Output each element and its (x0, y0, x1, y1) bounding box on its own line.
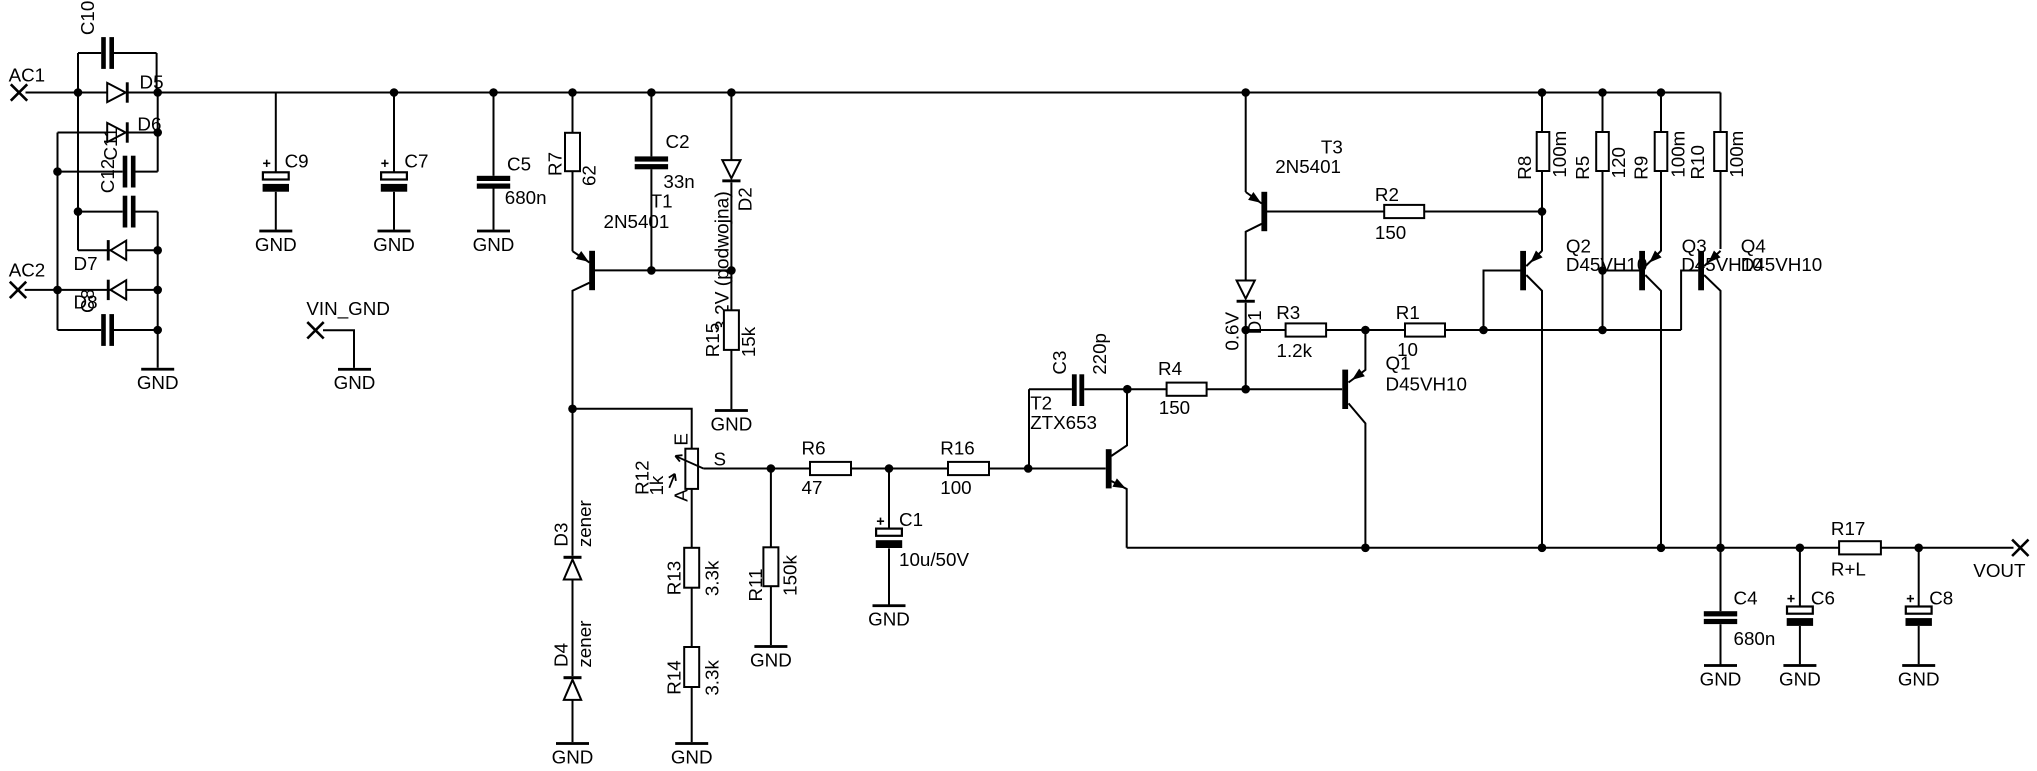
svg-text:AC2: AC2 (9, 260, 46, 281)
resistor R10 (1687, 131, 1747, 180)
ground C1 (868, 604, 910, 629)
resistor R14 (663, 647, 722, 696)
svg-text:C3: C3 (1049, 351, 1070, 375)
wire Q2 collector drop (1526, 275, 1542, 548)
svg-text:100: 100 (940, 477, 971, 498)
svg-text:T2: T2 (1030, 393, 1052, 414)
svg-text:GND: GND (750, 649, 792, 670)
resistor R1 (1396, 302, 1445, 360)
wire zener D3-D4 link (572, 579, 574, 676)
svg-text:100m: 100m (1726, 131, 1747, 178)
wire C8 bottom lead (1918, 626, 1920, 664)
port AC1 (9, 64, 46, 100)
svg-text:zener: zener (574, 621, 595, 668)
svg-text:120: 120 (1608, 147, 1629, 178)
capacitor C7 (381, 150, 429, 191)
svg-text:GND: GND (868, 609, 910, 630)
capacitor C4 (1704, 587, 1775, 649)
svg-text:C10: C10 (77, 1, 98, 35)
ground C8 output (1898, 664, 1940, 689)
svg-text:R6: R6 (802, 438, 826, 459)
svg-text:100m: 100m (1549, 131, 1570, 178)
port AC2 (9, 260, 46, 299)
diode D3 zener (550, 500, 595, 579)
svg-text:62: 62 (579, 165, 600, 186)
svg-text:C5: C5 (507, 154, 531, 175)
svg-text:GND: GND (671, 746, 713, 767)
ground doubler (137, 368, 179, 393)
svg-text:T3: T3 (1321, 136, 1343, 157)
svg-text:680n: 680n (505, 187, 547, 208)
resistor R16 (940, 438, 989, 499)
svg-text:D7: D7 (74, 253, 98, 274)
wire C5 bottom lead (493, 188, 495, 229)
svg-text:S: S (714, 449, 727, 470)
svg-text:R14: R14 (663, 660, 684, 694)
capacitor C9 (263, 151, 309, 192)
svg-text:R5: R5 (1572, 156, 1593, 180)
svg-text:C8: C8 (77, 289, 98, 313)
wire C12 right lead (136, 211, 158, 213)
svg-text:GND: GND (137, 372, 179, 393)
svg-text:GND: GND (373, 234, 415, 255)
svg-text:R2: R2 (1375, 184, 1399, 205)
ground C5 (473, 230, 515, 255)
svg-text:VIN_GND: VIN_GND (306, 298, 390, 320)
wire Q3 emitter diagonal (1645, 251, 1661, 266)
wire C1 bottom lead (888, 548, 890, 605)
diode D6 (107, 114, 161, 143)
transistor Q3 (1639, 235, 1762, 290)
wire pot chain down (R12-R13-R14-GND) (691, 489, 693, 742)
capacitor C8 doubler (77, 289, 114, 346)
resistor R9 (1631, 131, 1689, 180)
capacitor C6 (1787, 587, 1835, 626)
svg-text:100m: 100m (1667, 131, 1688, 178)
wire T1 collector diagonal (573, 283, 590, 556)
svg-text:D3: D3 (550, 523, 571, 547)
svg-text:220p: 220p (1089, 333, 1110, 375)
wire Q1 collector drop (1349, 403, 1366, 547)
svg-text:R3: R3 (1276, 302, 1300, 323)
resistor R13 (663, 548, 722, 596)
wire C7 top lead (393, 93, 395, 172)
wire C8 right lead (114, 329, 158, 331)
transistor Q4 (1698, 235, 1822, 290)
svg-text:C7: C7 (404, 150, 428, 171)
svg-text:R9: R9 (1631, 156, 1652, 180)
svg-text:15k: 15k (738, 326, 759, 357)
svg-text:GND: GND (1779, 668, 1821, 689)
svg-text:R13: R13 (663, 561, 684, 595)
potentiometer R12 (632, 433, 726, 502)
transistor Q1 (1342, 353, 1467, 410)
wire C4 bottom lead (1720, 624, 1722, 664)
resistor R2 (1375, 184, 1424, 243)
ground C6 (1779, 664, 1821, 689)
wire AC1 main positive rail (26, 92, 1721, 94)
svg-text:150: 150 (1159, 397, 1190, 418)
wire D6 row (58, 132, 158, 134)
svg-text:A: A (670, 489, 691, 502)
svg-text:C6: C6 (1811, 587, 1835, 608)
wire VOUT rail (1127, 547, 2014, 549)
wire C11 right lead (136, 171, 158, 173)
resistor R4 (1158, 358, 1207, 418)
svg-text:R11: R11 (745, 568, 766, 601)
ground R14 (671, 742, 713, 767)
wire C12 left lead (78, 211, 123, 213)
diode D8 (74, 280, 127, 313)
wire D2 to R15 to GND (730, 182, 732, 409)
wire C10 right lead (114, 52, 157, 54)
wire C11 left lead (58, 171, 123, 173)
svg-text:680n: 680n (1734, 628, 1776, 649)
svg-text:1.2k: 1.2k (1277, 340, 1313, 361)
svg-text:C12: C12 (97, 159, 118, 193)
svg-text:10u/50V: 10u/50V (899, 549, 969, 570)
ground VIN_GND (334, 368, 376, 393)
wire C1 top lead (888, 469, 890, 528)
wire D7 row (78, 249, 158, 251)
ground R15 (711, 409, 753, 434)
svg-text:0.6V: 0.6V (1222, 312, 1243, 351)
wire D1 to base rows (1245, 303, 1247, 389)
svg-text:GND: GND (552, 746, 594, 767)
wire right spine upper (rail to C11) (157, 93, 159, 172)
svg-text:GND: GND (334, 372, 376, 393)
diode D1 (1222, 281, 1266, 351)
svg-text:33n: 33n (663, 171, 694, 192)
wire left spine x57 (D6 to C8) (57, 133, 59, 331)
svg-text:2N5401: 2N5401 (1275, 156, 1341, 177)
wire Q4 emitter diagonal (1704, 251, 1720, 266)
wire Q2 emitter diagonal (1526, 251, 1542, 266)
diode D4 zener (550, 621, 595, 700)
capacitor C8 output (1906, 587, 1954, 626)
capacitor C2 (635, 131, 695, 192)
wire Q3 base stub (1603, 270, 1640, 272)
capacitor C12 (97, 159, 136, 228)
svg-text:150k: 150k (780, 555, 801, 596)
resistor R8 (1514, 131, 1570, 180)
port VIN_GND (306, 298, 390, 339)
resistor R11 (745, 547, 801, 601)
port VOUT (1973, 540, 2028, 581)
diode D5 (107, 72, 163, 103)
wire C10 left lead (78, 52, 101, 54)
wire C9 bottom lead (275, 192, 277, 230)
wire AC2 row (25, 289, 158, 291)
wire R3-R1 base row (1246, 329, 1681, 331)
wire C4 top lead (1720, 548, 1722, 611)
wire D2 top lead (730, 93, 732, 161)
svg-text:1k: 1k (646, 475, 667, 495)
wire T3 base row (1267, 211, 1542, 213)
svg-text:C4: C4 (1734, 587, 1758, 608)
wire C3 to R4 to Q1 base (1084, 388, 1342, 390)
svg-text:D4: D4 (550, 643, 571, 667)
wire C3 left lead (1029, 388, 1072, 390)
svg-text:GND: GND (711, 413, 753, 434)
svg-text:T1: T1 (651, 191, 673, 212)
svg-text:R15: R15 (702, 323, 723, 357)
wire wiper S row and main signal row (703, 468, 1105, 470)
svg-text:C9: C9 (285, 151, 309, 172)
wire R5 line rail to base row (1602, 93, 1604, 331)
wire R7 line rail to T1 emitter (572, 93, 574, 252)
resistor R6 (802, 438, 852, 499)
transistor T2 (1030, 393, 1126, 489)
svg-text:D45VH10: D45VH10 (1566, 254, 1647, 275)
svg-text:GND: GND (255, 234, 297, 255)
resistor R17 (1831, 518, 1881, 580)
wire C8 top lead (1918, 548, 1920, 606)
svg-text:R+L: R+L (1831, 559, 1866, 580)
ground R11 (750, 645, 792, 670)
svg-text:R4: R4 (1158, 358, 1182, 379)
wire Q4 collector drop (1704, 275, 1720, 548)
wire T3 emitter drop (1245, 93, 1247, 193)
svg-text:ZTX653: ZTX653 (1030, 412, 1097, 433)
wire rail corner down to R10 (1720, 93, 1722, 250)
wire R8 line rail to Q2 emitter (1541, 93, 1543, 252)
label 3.2V (podwojna) (713, 191, 734, 331)
wire C10 right drop to rail (156, 53, 158, 93)
svg-text:150: 150 (1375, 222, 1406, 243)
svg-text:AC1: AC1 (9, 64, 46, 85)
resistor R15 (702, 310, 759, 357)
wire C6 bottom lead (1799, 626, 1801, 664)
wire left spine x78 (C10 to D7) (77, 53, 79, 250)
wire T1 base row (595, 269, 732, 271)
wire C8 left lead (58, 329, 102, 331)
svg-text:C1: C1 (899, 509, 923, 530)
capacitor C11 (100, 127, 136, 187)
wire C6 top lead (1799, 548, 1801, 606)
transistor T1 (576, 191, 673, 291)
wire T1 collector row to pot (573, 409, 692, 449)
wire Q2 base riser (1484, 271, 1521, 331)
wire C7 bottom lead (393, 192, 395, 230)
svg-text:R10: R10 (1687, 145, 1708, 179)
wire D4 to GND (572, 700, 574, 742)
wire C2 top lead (650, 93, 652, 157)
svg-text:10: 10 (1397, 339, 1418, 360)
ground C7 (373, 230, 415, 255)
wire VIN_GND stub (323, 330, 354, 368)
wire Q3 collector drop (1645, 275, 1661, 548)
wire T3 collector to D1 (1246, 224, 1262, 281)
svg-text:R7: R7 (545, 152, 566, 176)
svg-text:47: 47 (802, 477, 823, 498)
svg-text:R16: R16 (940, 438, 974, 459)
ground D4 (552, 742, 594, 767)
ground C4 (1700, 664, 1742, 689)
svg-text:zener: zener (574, 500, 595, 547)
wire T2 base riser (1028, 389, 1030, 468)
svg-text:C2: C2 (666, 131, 690, 152)
wire Q1 emitter riser (1349, 330, 1366, 383)
svg-text:GND: GND (1700, 668, 1742, 689)
wire Q4 base riser (1681, 271, 1698, 331)
capacitor C10 (77, 1, 114, 69)
svg-text:E: E (670, 433, 691, 446)
wire T2 collector diagonal (1111, 389, 1127, 456)
resistor R3 (1276, 302, 1326, 361)
svg-text:D45VH10: D45VH10 (1741, 254, 1822, 275)
svg-text:D45VH10: D45VH10 (1386, 374, 1467, 395)
transistor T3 (1248, 136, 1343, 231)
wire C5 top lead (493, 93, 495, 176)
capacitor C3 (1049, 333, 1110, 406)
wire T3 emitter diagonal (1246, 192, 1262, 204)
capacitor C1 (876, 509, 970, 570)
ground C9 (255, 230, 297, 255)
svg-text:C11: C11 (100, 127, 121, 160)
diode D2 (722, 160, 755, 211)
svg-text:GND: GND (473, 234, 515, 255)
svg-text:VOUT: VOUT (1973, 560, 2026, 581)
wire R11 drop (770, 469, 772, 646)
svg-text:D2: D2 (735, 187, 756, 211)
svg-text:GND: GND (1898, 668, 1940, 689)
capacitor C5 (477, 154, 547, 209)
wire R9 line rail to Q3 emitter (1660, 93, 1662, 252)
svg-text:C8: C8 (1929, 587, 1953, 608)
svg-text:3.3k: 3.3k (701, 560, 722, 596)
svg-text:3.3k: 3.3k (701, 660, 722, 696)
transistor Q2 (1520, 235, 1647, 290)
diode D7 (74, 240, 127, 274)
wire C2 bottom lead (650, 169, 652, 270)
svg-text:R1: R1 (1396, 302, 1420, 323)
svg-text:2N5401: 2N5401 (604, 211, 670, 232)
wire T2 emitter diagonal (1111, 481, 1126, 548)
svg-text:R8: R8 (1514, 156, 1535, 180)
wire right spine lower (C12 to GND) (157, 212, 159, 368)
wire T1 emitter diagonal (573, 251, 590, 262)
svg-text:R17: R17 (1831, 518, 1865, 539)
wire C9 top lead (275, 93, 277, 172)
resistor R7 (545, 133, 600, 186)
resistor R5 (1572, 132, 1629, 180)
